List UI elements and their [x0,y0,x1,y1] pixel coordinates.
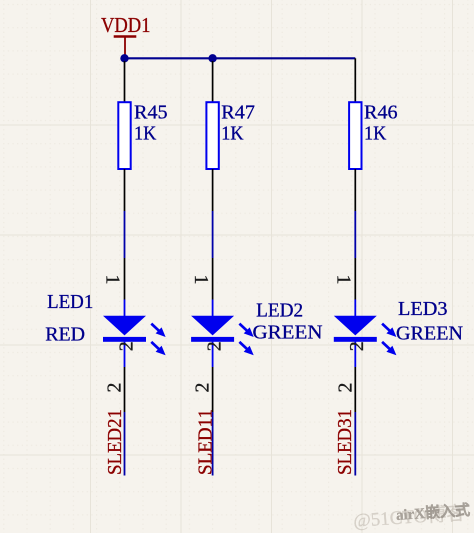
svg-text:GREEN: GREEN [396,323,463,345]
svg-text:SLED31: SLED31 [334,409,356,475]
svg-text:1K: 1K [364,123,387,145]
svg-text:1: 1 [333,275,355,285]
label R47 value 1K [221,102,255,145]
svg-text:2: 2 [192,383,214,393]
wire column 1 mid [124,211,126,258]
svg-text:SLED21: SLED21 [104,409,126,475]
LED D3 symbol [333,258,397,412]
wire net SLED21 [124,412,126,476]
resistor R47 [206,61,218,211]
svg-text:VDD1: VDD1 [101,13,151,37]
svg-text:LED3: LED3 [398,298,448,320]
svg-text:2: 2 [115,341,137,351]
svg-text:SLED11: SLED11 [194,409,216,475]
LED D2 symbol [190,258,254,412]
svg-text:R46: R46 [364,102,398,124]
wire column 2 mid [212,211,214,258]
resistor R45 [118,61,130,211]
wire net SLED31 [354,412,356,476]
svg-text:R47: R47 [221,102,255,124]
resistor R46 [349,58,361,211]
svg-text:2: 2 [346,341,368,351]
junction node A [120,54,128,62]
wire column 3 mid [354,211,356,258]
svg-text:2: 2 [334,383,356,393]
label R45 value 1K [134,102,168,145]
svg-text:GREEN: GREEN [253,322,323,344]
wire net SLED11 [212,412,214,476]
svg-text:R45: R45 [134,102,168,124]
svg-text:LED1: LED1 [47,291,93,313]
watermark [352,501,470,532]
junction node B [208,54,216,62]
power port VDD1 bar symbol [114,37,137,57]
svg-text:1: 1 [190,275,212,285]
svg-text:RED: RED [45,324,85,346]
svg-text:2: 2 [104,383,126,393]
wire top rail [125,57,356,59]
svg-text:1: 1 [102,275,124,285]
label R46 value 1K [364,102,398,145]
svg-text:LED2: LED2 [256,299,303,321]
svg-text:1K: 1K [134,123,157,145]
LED D1 symbol [102,258,166,412]
svg-text:2: 2 [203,341,225,351]
svg-text:1K: 1K [221,123,244,145]
